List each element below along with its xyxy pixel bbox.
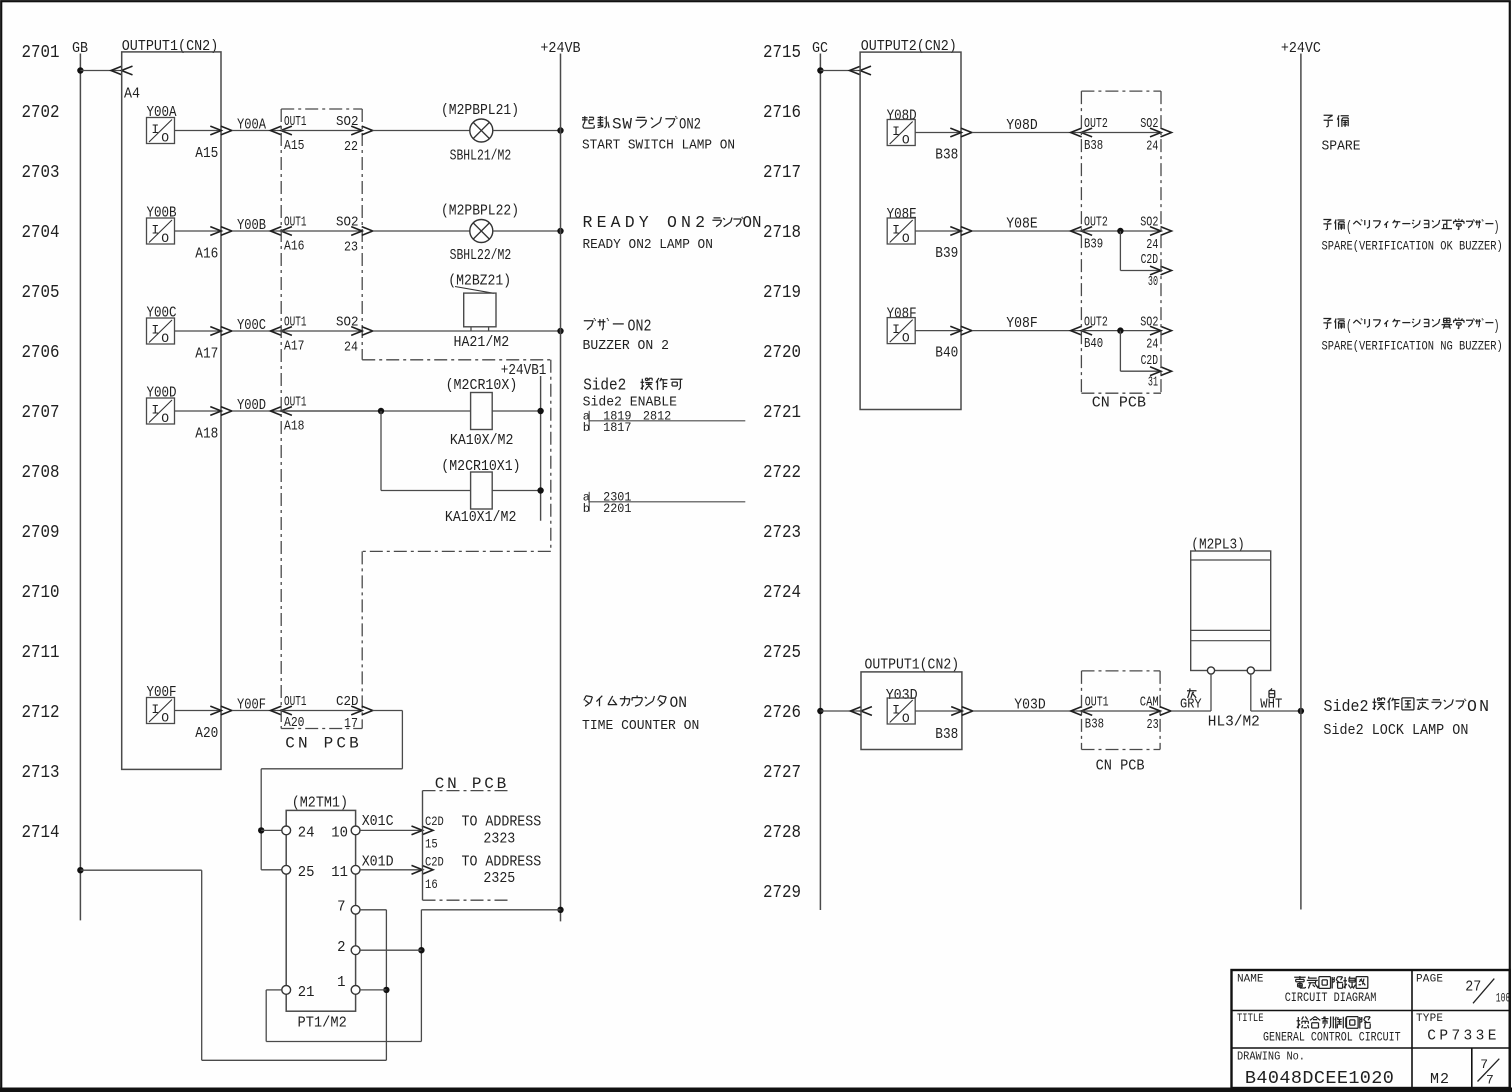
svg-text:I: I xyxy=(892,322,900,337)
arrow Y08F out of OUTPUT2 xyxy=(950,326,961,335)
wire CN PCB to buzzer xyxy=(373,330,561,332)
svg-text:O: O xyxy=(902,231,910,246)
svg-text:TO ADDRESS: TO ADDRESS xyxy=(462,855,542,871)
svg-text:B39: B39 xyxy=(1084,238,1103,253)
svg-text:Side2: Side2 xyxy=(583,376,626,395)
wire KA10X to +24VB1 xyxy=(492,410,540,412)
svg-text:B39: B39 xyxy=(935,245,958,262)
svg-text:I: I xyxy=(151,122,159,137)
svg-text:GRY: GRY xyxy=(1180,698,1202,713)
svg-text:2723: 2723 xyxy=(763,522,801,543)
svg-text:OUT2: OUT2 xyxy=(1084,117,1108,132)
wire Y00B to CN PCB xyxy=(232,230,281,232)
node GC junction Y03D xyxy=(817,708,823,714)
svg-text:25: 25 xyxy=(298,865,315,881)
wire lamp SBHL21 to +24VB xyxy=(493,130,561,132)
svg-text:CN PCB: CN PCB xyxy=(1092,395,1146,412)
svg-text:Y00F: Y00F xyxy=(237,697,266,714)
node junction pin1 wire xyxy=(383,987,389,993)
svg-text:7: 7 xyxy=(1480,1057,1488,1072)
node GB junction bottom xyxy=(77,867,83,873)
timer pin 11 xyxy=(351,865,360,874)
connector OUTPUT2(CN2) box xyxy=(860,52,961,409)
wire GC rail vertical xyxy=(819,54,821,911)
svg-text:16: 16 xyxy=(425,877,438,892)
svg-text:2716: 2716 xyxy=(763,102,801,123)
svg-text:I: I xyxy=(151,702,159,717)
timer pin 24 xyxy=(282,826,291,835)
svg-text:Y00C: Y00C xyxy=(147,305,177,322)
svg-text:SW: SW xyxy=(612,116,632,134)
arrow Y08E out of OUTPUT2 xyxy=(950,227,961,236)
svg-text:Side2 LOCK LAMP ON: Side2 LOCK LAMP ON xyxy=(1323,723,1468,739)
wire Y08E to CN PCB xyxy=(972,230,1081,232)
wire Y00C to CN PCB xyxy=(232,330,281,332)
svg-text:O: O xyxy=(902,711,910,726)
timer pin 21 xyxy=(282,986,291,995)
svg-text:2724: 2724 xyxy=(763,582,801,603)
svg-text:2718: 2718 xyxy=(763,222,801,243)
svg-text:2708: 2708 xyxy=(22,462,60,483)
node GC junction dot top xyxy=(817,67,823,73)
svg-text:OUT1: OUT1 xyxy=(284,115,307,130)
arrow X01D into CN PCB xyxy=(412,865,423,874)
wire branch to C2D 31 xyxy=(1119,331,1121,372)
arrow C2D out of CN PCB xyxy=(351,706,362,715)
arrow C2D 31 out of CN PCB xyxy=(1150,367,1161,376)
svg-text:ON: ON xyxy=(743,213,762,232)
svg-text:2201: 2201 xyxy=(603,502,631,516)
svg-text:Side2: Side2 xyxy=(1324,697,1369,716)
svg-text:C2D: C2D xyxy=(425,854,444,869)
arrow Y00C out of OUTPUT1 xyxy=(210,327,221,336)
svg-text:24: 24 xyxy=(1146,238,1158,253)
wire CN PCB to lamp SBHL22 xyxy=(373,230,470,232)
I/O module Y00F xyxy=(147,698,175,724)
svg-text:I: I xyxy=(892,223,900,238)
svg-text:2704: 2704 xyxy=(22,222,60,243)
svg-text:PT1/M2: PT1/M2 xyxy=(298,1014,347,1031)
wire branch down to KA10X1 row xyxy=(380,411,382,491)
connector OUTPUT1(CN2) box (Y03D) xyxy=(861,672,962,750)
wire timer pin10 X01C to CN PCB xyxy=(360,829,422,831)
svg-text:Y00D: Y00D xyxy=(237,397,266,414)
svg-text:Y08D: Y08D xyxy=(1006,117,1037,134)
svg-text:X01C: X01C xyxy=(362,813,394,830)
wire Y03D module to box edge xyxy=(915,710,962,712)
svg-text:A17: A17 xyxy=(284,339,305,354)
svg-text:O: O xyxy=(161,411,169,426)
arrow Y03D into CN PCB xyxy=(1071,707,1082,716)
svg-text:I: I xyxy=(151,323,159,338)
arrow Y00F out of OUTPUT1 xyxy=(210,706,221,715)
svg-text:SPARE(VERIFICATION OK BUZZER): SPARE(VERIFICATION OK BUZZER) xyxy=(1322,239,1503,254)
wire Y08D to CN PCB xyxy=(972,132,1081,134)
I/O module Y08E xyxy=(887,218,915,244)
svg-text:2706: 2706 xyxy=(22,342,60,363)
wire Y00F C2D to corner xyxy=(373,710,403,712)
svg-text:GENERAL CONTROL CIRCUIT: GENERAL CONTROL CIRCUIT xyxy=(1263,1030,1401,1045)
svg-text:(M2PBPL21): (M2PBPL21) xyxy=(441,102,519,119)
svg-text:O: O xyxy=(902,331,910,346)
svg-text:O: O xyxy=(161,331,169,346)
svg-text:PAGE: PAGE xyxy=(1416,974,1443,986)
svg-text:Y00A: Y00A xyxy=(237,117,266,134)
node junction branch Y08F xyxy=(1117,327,1123,333)
svg-text:2701: 2701 xyxy=(22,42,60,63)
svg-text:1817: 1817 xyxy=(603,421,631,435)
svg-text:C2D: C2D xyxy=(425,814,444,829)
svg-text:BUZZER ON 2: BUZZER ON 2 xyxy=(583,338,670,354)
timer pin 7 xyxy=(351,905,360,914)
svg-text:): ) xyxy=(1494,318,1500,335)
wire Y00A to CN PCB xyxy=(232,130,281,132)
title block frame xyxy=(1232,970,1510,1088)
svg-text:24: 24 xyxy=(1146,338,1158,353)
wire to timer pin 24 xyxy=(261,829,282,831)
svg-text:(: ( xyxy=(1346,219,1352,236)
svg-text:I: I xyxy=(892,703,900,718)
svg-text:Y00B: Y00B xyxy=(237,217,266,234)
wire Y00D to CN PCB xyxy=(232,410,281,412)
svg-text:2720: 2720 xyxy=(763,342,801,363)
svg-text:31: 31 xyxy=(1148,376,1158,391)
svg-text:A18: A18 xyxy=(195,426,218,443)
lamp SBHL21/M2 xyxy=(470,119,493,142)
connector OUTPUT1(CN2) box xyxy=(122,52,221,770)
node junction +24VB bottom xyxy=(557,907,563,913)
svg-text:KA10X/M2: KA10X/M2 xyxy=(450,432,514,449)
svg-text:TIME COUNTER ON: TIME COUNTER ON xyxy=(582,718,699,734)
svg-text:C2D: C2D xyxy=(1141,354,1158,369)
svg-text:2719: 2719 xyxy=(763,282,801,303)
svg-text:2727: 2727 xyxy=(763,762,801,783)
svg-text:2712: 2712 xyxy=(22,702,60,723)
lamp HL3/M2 body xyxy=(1191,551,1271,671)
svg-text:24: 24 xyxy=(344,341,358,356)
svg-text:2725: 2725 xyxy=(763,642,801,663)
node junction +24VC xyxy=(1298,708,1304,714)
arrow SO2 out of CN PCB xyxy=(351,327,362,336)
svg-text:I: I xyxy=(151,403,159,418)
svg-text:23: 23 xyxy=(344,241,358,256)
wire timer pin 2 stub xyxy=(360,949,421,951)
svg-text:Y00D: Y00D xyxy=(147,385,177,402)
svg-text:A15: A15 xyxy=(284,139,305,154)
lamp HL3/M2 terminal GRY xyxy=(1207,667,1214,674)
arrow SO2 out of CN PCB Y08F xyxy=(1150,326,1161,335)
wire +24VB to timer pin 21 loop xyxy=(421,909,560,911)
arrow Y03D out of OUTPUT1 xyxy=(951,707,962,716)
svg-text:A15: A15 xyxy=(195,145,218,162)
arrow SO2 out of CN PCB Y08D xyxy=(1150,128,1161,137)
svg-text:30: 30 xyxy=(1148,275,1158,290)
svg-text:CIRCUIT DIAGRAM: CIRCUIT DIAGRAM xyxy=(1285,990,1377,1005)
svg-text:OUT1: OUT1 xyxy=(284,216,307,231)
svg-text:(: ( xyxy=(1346,318,1352,335)
svg-text:Y08E: Y08E xyxy=(1006,216,1037,233)
timer pin 25 xyxy=(282,865,291,874)
svg-text:TITLE: TITLE xyxy=(1237,1013,1264,1025)
svg-text:ON: ON xyxy=(670,694,688,712)
svg-text:B38: B38 xyxy=(935,147,958,164)
svg-text:WHT: WHT xyxy=(1260,698,1282,713)
wire GB to OUTPUT1 connector xyxy=(80,70,121,72)
svg-text:OUTPUT1(CN2): OUTPUT1(CN2) xyxy=(865,657,960,674)
svg-text:O: O xyxy=(161,711,169,726)
svg-text:2707: 2707 xyxy=(22,402,60,423)
arrow Y08D into CN PCB xyxy=(1071,128,1082,137)
wire through CN PCB row B38 xyxy=(1081,132,1161,134)
svg-text:OUT1: OUT1 xyxy=(284,396,307,411)
svg-text:2729: 2729 xyxy=(763,882,801,903)
svg-text:(M2TM1): (M2TM1) xyxy=(292,794,348,811)
svg-text:Y08F: Y08F xyxy=(1006,315,1037,332)
text spare (ja) xyxy=(1324,115,1333,127)
svg-text:A17: A17 xyxy=(195,346,218,363)
svg-text:23: 23 xyxy=(1147,718,1159,733)
svg-text:(M2PBPL22): (M2PBPL22) xyxy=(441,203,519,220)
I/O module Y08D xyxy=(887,120,915,146)
svg-text:READY ON2 LAMP ON: READY ON2 LAMP ON xyxy=(583,237,713,253)
svg-text:OUT2: OUT2 xyxy=(1084,216,1108,231)
svg-text:O: O xyxy=(161,231,169,246)
CN PCB connector box (Y03D, dash-dot) xyxy=(1082,670,1161,672)
svg-text:b: b xyxy=(583,502,590,516)
wire Y08F to CN PCB xyxy=(972,330,1081,332)
wire Y00F to CN PCB xyxy=(232,710,281,712)
arrow into OUTPUT2 at GC wire xyxy=(850,66,861,75)
arrow Y08F into CN PCB xyxy=(1071,326,1082,335)
node junction +24VB row 2706 xyxy=(557,328,563,334)
svg-text:SPARE(VERIFICATION NG BUZZER): SPARE(VERIFICATION NG BUZZER) xyxy=(1322,339,1503,354)
wire to timer pin 25 xyxy=(261,869,282,871)
svg-text:27: 27 xyxy=(1465,979,1481,996)
svg-text:2702: 2702 xyxy=(22,102,60,123)
wire Y00A module to box edge xyxy=(175,130,222,132)
svg-text:100: 100 xyxy=(1496,991,1511,1005)
wire Y00D to relay branch xyxy=(281,410,471,412)
svg-text:Y00C: Y00C xyxy=(237,317,266,334)
node junction timer pin24 wire xyxy=(258,827,264,833)
svg-text:B38: B38 xyxy=(935,726,958,743)
svg-text:SBHL21/M2: SBHL21/M2 xyxy=(450,148,512,165)
arrow Y00B out of OUTPUT1 xyxy=(210,227,221,236)
svg-text:17: 17 xyxy=(344,717,358,732)
svg-text:B40: B40 xyxy=(935,345,958,362)
label white wire (ja) xyxy=(1269,688,1275,697)
svg-text:NAME: NAME xyxy=(1237,974,1264,986)
svg-text:SBHL22/M2: SBHL22/M2 xyxy=(450,247,512,264)
svg-text:KA10X1/M2: KA10X1/M2 xyxy=(445,509,517,526)
wire branch to C2D 30 xyxy=(1119,231,1121,271)
svg-text:2715: 2715 xyxy=(763,42,801,63)
svg-text:): ) xyxy=(1494,219,1500,236)
svg-text:A16: A16 xyxy=(195,246,218,263)
wire through CN PCB row B40 xyxy=(1081,330,1161,332)
svg-text:Y00F: Y00F xyxy=(147,684,177,701)
svg-text:2325: 2325 xyxy=(483,871,515,887)
wire KA10X1 to +24VB1 xyxy=(492,490,540,492)
svg-text:7: 7 xyxy=(1486,1072,1494,1087)
node junction Y00D branch xyxy=(378,408,384,414)
I/O module Y00D xyxy=(147,398,175,424)
svg-text:A18: A18 xyxy=(284,419,305,434)
svg-text:2711: 2711 xyxy=(22,642,60,663)
svg-text:Y03D: Y03D xyxy=(886,687,918,704)
wire timer pin11 X01D to CN PCB xyxy=(360,869,422,871)
wire Y00B module to box edge xyxy=(175,230,222,232)
svg-text:A4: A4 xyxy=(124,86,140,103)
wire Y08D module to box edge xyxy=(915,132,961,134)
node junction +24VB1 KA10X xyxy=(537,408,543,414)
svg-text:SPARE: SPARE xyxy=(1322,139,1361,155)
wire through CN PCB row A15 xyxy=(281,130,362,132)
svg-text:M2: M2 xyxy=(1430,1071,1449,1088)
node junction +24VB1 KA10X1 xyxy=(537,487,543,493)
node GB junction dot top xyxy=(77,67,83,73)
wire through CN PCB row A17 xyxy=(281,330,362,332)
svg-text:A20: A20 xyxy=(195,725,218,742)
wire CAM to GRY terminal xyxy=(1172,710,1212,712)
svg-text:B40: B40 xyxy=(1084,337,1103,352)
svg-text:HA21/M2: HA21/M2 xyxy=(454,334,510,351)
svg-text:I: I xyxy=(151,223,159,238)
lamp HL3/M2 terminal WHT xyxy=(1247,667,1254,674)
svg-text:TYPE: TYPE xyxy=(1416,1013,1443,1025)
relay coil KA10X/M2 xyxy=(471,393,493,430)
svg-text:X01D: X01D xyxy=(362,853,394,870)
svg-text:HL3/M2: HL3/M2 xyxy=(1208,713,1260,730)
svg-text:2709: 2709 xyxy=(22,522,60,543)
wire through CN PCB row B39 xyxy=(1081,230,1161,232)
svg-text:2713: 2713 xyxy=(22,762,60,783)
svg-text:OUT1: OUT1 xyxy=(1085,696,1109,711)
CN PCB connector box left (dash-dot) xyxy=(281,108,362,110)
text buzzer on 2 (ja) xyxy=(584,318,596,330)
arrow Y00B into CN PCB xyxy=(270,227,281,236)
label grey wire (ja) xyxy=(1187,688,1197,698)
I/O module Y03D xyxy=(887,698,915,724)
wire Y00C module to box edge xyxy=(175,330,222,332)
wire CN PCB to lamp SBHL21 xyxy=(373,130,470,132)
svg-text:OUT1: OUT1 xyxy=(284,316,307,331)
svg-text:7: 7 xyxy=(337,900,345,916)
timer pin 1 xyxy=(351,986,360,995)
node junction +24VB row 2702 xyxy=(557,127,563,133)
arrow Y00A out of OUTPUT1 xyxy=(210,126,221,135)
svg-text:DRAWING No.: DRAWING No. xyxy=(1237,1051,1305,1064)
svg-text:2714: 2714 xyxy=(22,822,60,843)
wire through CN PCB row A18 xyxy=(281,410,381,412)
wire lamp SBHL22 to +24VB xyxy=(493,230,561,232)
svg-text:1: 1 xyxy=(337,975,345,991)
text time counter on (ja) xyxy=(584,696,593,707)
svg-text:OUT2: OUT2 xyxy=(1084,315,1108,330)
arrow C2D 30 out of CN PCB xyxy=(1150,266,1161,275)
wire timer pin 7 stub xyxy=(360,909,386,911)
wire through CN PCB row A16 xyxy=(281,230,362,232)
svg-text:(M2CR10X): (M2CR10X) xyxy=(446,377,518,394)
svg-text:Y00B: Y00B xyxy=(147,205,177,222)
I/O module Y00A xyxy=(147,118,175,144)
svg-text:C2D: C2D xyxy=(1141,253,1158,268)
arrow Y00A into CN PCB xyxy=(270,126,281,135)
relay coil KA10X1/M2 xyxy=(471,472,493,509)
svg-text:21: 21 xyxy=(298,985,315,1001)
svg-text:2728: 2728 xyxy=(763,822,801,843)
arrow Y08D out of OUTPUT2 xyxy=(950,128,961,137)
arrow SO2 out of CN PCB xyxy=(351,227,362,236)
svg-text:2705: 2705 xyxy=(22,282,60,303)
svg-text:I: I xyxy=(892,124,900,139)
arrow CAM out of CN PCB xyxy=(1149,707,1160,716)
lamp SBHL22/M2 xyxy=(470,220,493,243)
timer pin 10 xyxy=(351,826,360,835)
svg-text:Y00A: Y00A xyxy=(147,104,177,121)
arrow Y08E into CN PCB xyxy=(1071,227,1082,236)
svg-text:2722: 2722 xyxy=(763,462,801,483)
svg-text:OUT1: OUT1 xyxy=(284,695,307,710)
power +24VB1 rail segment xyxy=(540,376,542,521)
svg-text:Y03D: Y03D xyxy=(1014,697,1045,714)
wire through CN PCB Y03D xyxy=(1082,710,1161,712)
CN PCB connector box 2 xyxy=(422,791,424,901)
arrow Y00D into CN PCB xyxy=(270,407,281,416)
svg-text:22: 22 xyxy=(344,140,358,155)
svg-text:ON2: ON2 xyxy=(679,116,701,134)
text start switch lamp on (ja) xyxy=(582,116,594,128)
wire Y08F module to box edge xyxy=(915,330,961,332)
right grid row numbers 2715-2729 xyxy=(763,42,801,903)
arrow Y00F into CN PCB xyxy=(270,706,281,715)
wire timer pin 1 stub xyxy=(360,989,386,991)
timer pin 2 xyxy=(351,946,360,955)
svg-text:2710: 2710 xyxy=(22,582,60,603)
arrow into OUTPUT1 at GB wire xyxy=(111,66,122,75)
svg-text:B4048DCEE1020: B4048DCEE1020 xyxy=(1245,1068,1394,1089)
svg-text:B38: B38 xyxy=(1084,139,1103,154)
svg-text:b: b xyxy=(583,421,590,435)
text spare verification ok buzzer (ja) xyxy=(1323,220,1331,230)
wire Y08E module to box edge xyxy=(915,230,961,232)
wire GC to OUTPUT1 (Y03D) xyxy=(820,710,861,712)
svg-text:A20: A20 xyxy=(284,716,305,731)
arrow Y00D out of OUTPUT1 xyxy=(210,407,221,416)
svg-text:15: 15 xyxy=(425,836,438,851)
I/O module Y00B xyxy=(147,218,175,244)
node junction branch Y08E xyxy=(1117,228,1123,234)
wire Y00F module to box edge xyxy=(175,710,222,712)
wire Y03D to CN PCB xyxy=(973,710,1082,712)
power +24VB rail xyxy=(560,54,562,922)
wire GB rail vertical xyxy=(79,54,81,921)
svg-text:24: 24 xyxy=(1146,140,1158,155)
wire GC to OUTPUT2 connector xyxy=(820,70,860,72)
svg-text:O: O xyxy=(902,133,910,148)
svg-text:2323: 2323 xyxy=(483,831,515,847)
arrow SO2 out of CN PCB Y08E xyxy=(1150,227,1161,236)
svg-text:READY ON2: READY ON2 xyxy=(583,213,706,232)
svg-text:A16: A16 xyxy=(284,239,305,254)
timer PT1/M2 box xyxy=(286,810,355,1011)
svg-text:ON2: ON2 xyxy=(628,317,652,336)
svg-text:START SWITCH LAMP ON: START SWITCH LAMP ON xyxy=(582,138,735,154)
svg-text:CN PCB: CN PCB xyxy=(1096,758,1145,775)
arrow Y00C into CN PCB xyxy=(270,327,281,336)
arrow SO2 out of CN PCB xyxy=(351,126,362,135)
text spare verification ng buzzer (ja) xyxy=(1323,319,1331,329)
